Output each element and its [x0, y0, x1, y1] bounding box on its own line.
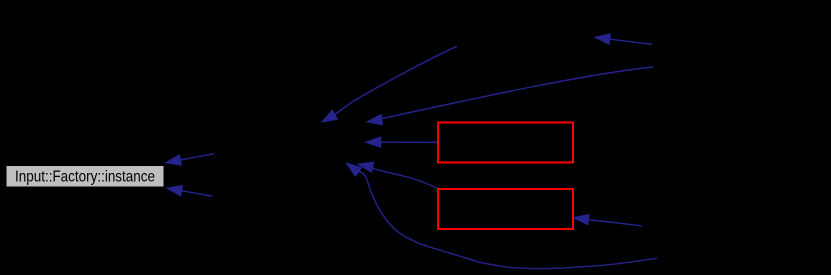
edge redbox2->M1 — [358, 162, 438, 189]
edge R1->T1 — [595, 34, 652, 45]
svg-text:Input::Factory::instance: Input::Factory::instance — [15, 169, 155, 186]
edge T1->M1 — [322, 46, 457, 122]
node red box 2 (highlighted caller, label hidden) — [438, 189, 573, 229]
edge M2->instance — [167, 186, 213, 197]
node Input::Factory::instance (current node, grey) — [6, 166, 164, 188]
node red box 1 (highlighted caller, label hidden) — [438, 123, 573, 163]
edge redbox1->M1 — [366, 137, 437, 148]
edge R4->redbox2 — [574, 214, 642, 226]
edge R2->M1 — [367, 67, 653, 125]
edge M1->instance — [166, 154, 215, 165]
edge R3->M1 — [346, 163, 657, 269]
